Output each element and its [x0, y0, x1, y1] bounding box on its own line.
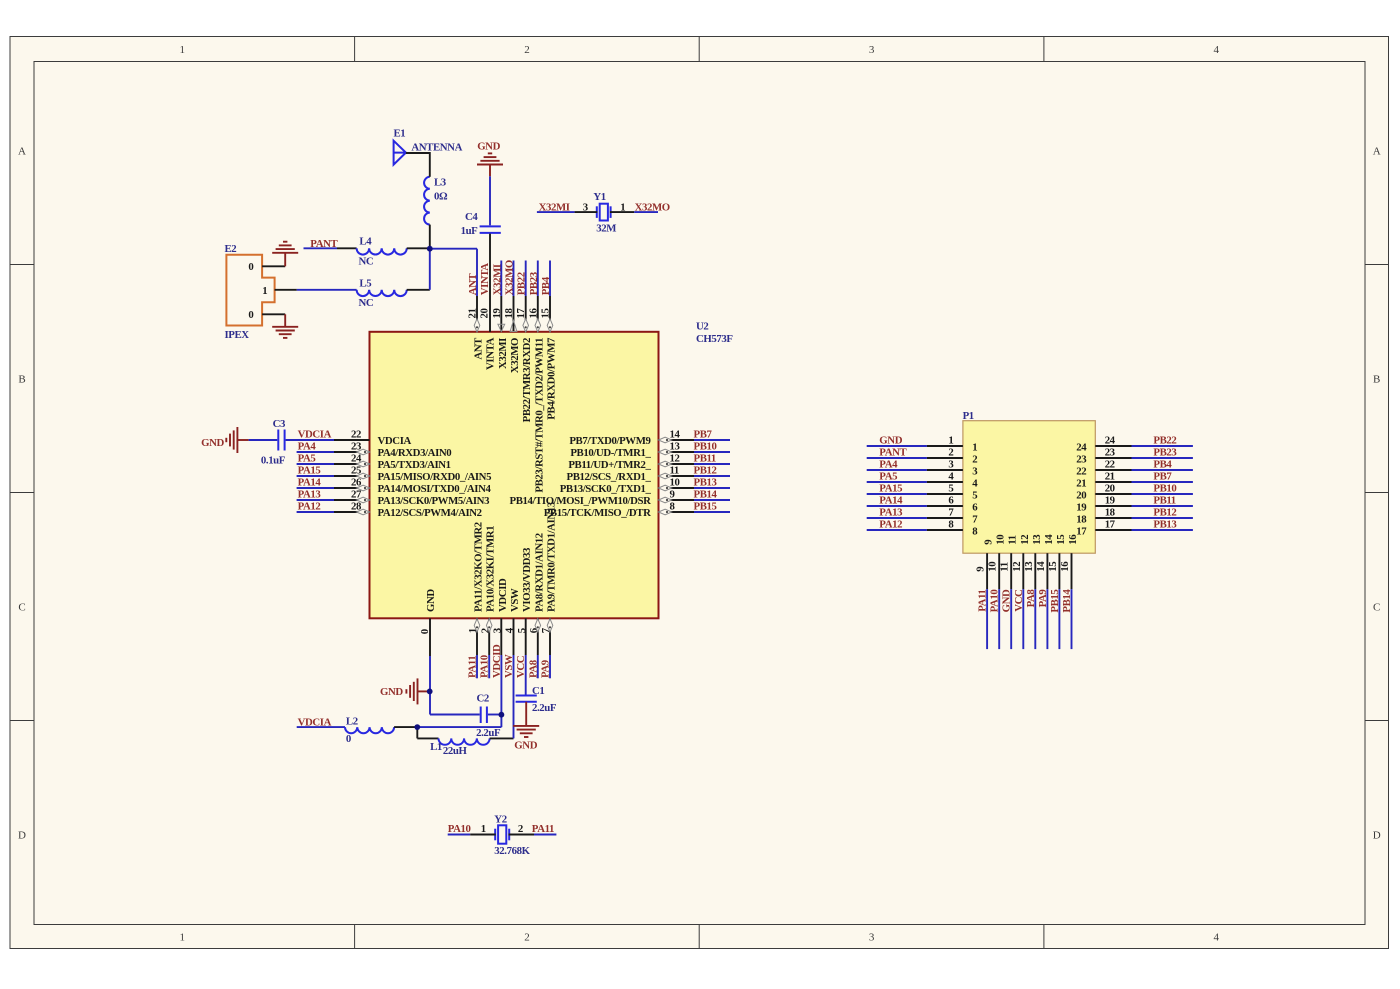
svg-text:C: C	[18, 601, 25, 613]
svg-text:2.2uF: 2.2uF	[532, 702, 557, 714]
svg-text:X32MI: X32MI	[491, 264, 503, 295]
svg-text:C2: C2	[477, 692, 489, 704]
svg-text:3: 3	[869, 44, 875, 56]
svg-text:ANT: ANT	[473, 337, 485, 360]
svg-text:GND: GND	[201, 437, 224, 449]
svg-text:PA12: PA12	[298, 500, 321, 512]
svg-text:PB10: PB10	[694, 440, 717, 452]
svg-text:5: 5	[972, 490, 977, 502]
svg-text:PB11: PB11	[694, 452, 716, 464]
svg-text:21: 21	[1105, 470, 1115, 482]
svg-text:PA9: PA9	[1037, 589, 1049, 608]
svg-text:X32MO: X32MO	[509, 338, 521, 373]
svg-text:B: B	[18, 373, 25, 385]
svg-text:11: 11	[670, 465, 679, 477]
svg-text:VCC: VCC	[1013, 590, 1025, 612]
svg-text:14: 14	[1043, 534, 1055, 545]
svg-text:PB10: PB10	[1153, 482, 1176, 494]
svg-text:32.768K: 32.768K	[494, 845, 530, 857]
svg-text:18: 18	[1105, 506, 1116, 518]
svg-text:PB14: PB14	[1061, 589, 1073, 613]
svg-text:19: 19	[1105, 494, 1116, 506]
svg-text:16: 16	[527, 308, 539, 319]
svg-text:21: 21	[1076, 478, 1086, 490]
svg-text:17: 17	[1105, 518, 1116, 530]
svg-text:E2: E2	[225, 243, 237, 255]
svg-text:15: 15	[1055, 535, 1067, 545]
svg-text:PB22: PB22	[1153, 434, 1176, 446]
svg-text:ANTENNA: ANTENNA	[411, 141, 462, 153]
svg-text:PA9/TMR0/TXD1/AIN13: PA9/TMR0/TXD1/AIN13	[546, 501, 558, 612]
svg-text:L5: L5	[359, 278, 371, 290]
svg-text:24: 24	[1105, 434, 1116, 446]
svg-text:PB10/UD-/TMR1_: PB10/UD-/TMR1_	[570, 447, 651, 459]
svg-text:PA10: PA10	[448, 823, 471, 835]
svg-text:CH573F: CH573F	[696, 333, 733, 345]
svg-text:PB14/TIO/MOSI_/PWM10/DSR: PB14/TIO/MOSI_/PWM10/DSR	[510, 495, 652, 507]
svg-text:0: 0	[419, 629, 431, 634]
svg-text:PB7: PB7	[694, 428, 713, 440]
svg-text:PB23/RST#/TMR0_/TXD2/PWM11: PB23/RST#/TMR0_/TXD2/PWM11	[533, 338, 545, 493]
svg-text:0: 0	[248, 261, 253, 273]
svg-text:PB13: PB13	[1153, 518, 1177, 530]
svg-text:VIO33/VDD33: VIO33/VDD33	[521, 547, 533, 612]
svg-text:L1: L1	[430, 741, 442, 753]
svg-text:20: 20	[479, 309, 491, 319]
svg-text:VINTA: VINTA	[485, 337, 497, 370]
svg-text:12: 12	[1011, 562, 1023, 572]
svg-text:Y2: Y2	[494, 814, 506, 826]
svg-text:PB7/TXD0/PWM9: PB7/TXD0/PWM9	[569, 435, 651, 447]
svg-text:0: 0	[248, 309, 253, 321]
svg-text:15: 15	[1047, 562, 1059, 572]
svg-text:23: 23	[1076, 454, 1087, 466]
svg-text:22: 22	[1076, 466, 1086, 478]
svg-text:20: 20	[1076, 490, 1086, 502]
svg-text:4: 4	[1213, 44, 1219, 56]
svg-text:D: D	[18, 829, 26, 841]
svg-text:C1: C1	[532, 685, 544, 697]
svg-text:PA15: PA15	[298, 464, 321, 476]
svg-text:PA12/SCS/PWM4/AIN2: PA12/SCS/PWM4/AIN2	[378, 507, 482, 519]
svg-text:19: 19	[1076, 502, 1087, 514]
svg-text:PA4: PA4	[298, 440, 317, 452]
svg-text:PA11: PA11	[977, 590, 989, 612]
svg-text:PB12: PB12	[1153, 506, 1176, 518]
svg-text:PA11: PA11	[532, 823, 554, 835]
svg-text:PA13: PA13	[879, 506, 903, 518]
svg-text:C: C	[1373, 601, 1380, 613]
svg-text:PA5: PA5	[879, 470, 897, 482]
svg-text:C4: C4	[465, 211, 478, 223]
svg-text:GND: GND	[514, 740, 537, 752]
svg-text:22: 22	[351, 429, 361, 441]
svg-text:0.1uF: 0.1uF	[261, 455, 286, 467]
svg-text:1: 1	[481, 823, 486, 835]
svg-text:12: 12	[1019, 535, 1031, 545]
svg-text:PB4: PB4	[1153, 458, 1172, 470]
svg-text:GND: GND	[380, 686, 403, 698]
svg-text:0: 0	[346, 733, 351, 745]
svg-text:25: 25	[351, 465, 361, 477]
svg-text:PB4/RXD0/PWM7: PB4/RXD0/PWM7	[546, 337, 558, 420]
svg-text:1uF: 1uF	[461, 225, 479, 237]
svg-text:10: 10	[995, 535, 1007, 545]
svg-text:B: B	[1373, 373, 1380, 385]
svg-text:PA11/X32KO/TMR2: PA11/X32KO/TMR2	[473, 522, 485, 612]
svg-text:PANT: PANT	[879, 446, 907, 458]
svg-text:GND: GND	[879, 434, 902, 446]
svg-text:11: 11	[999, 562, 1011, 571]
svg-text:PA4: PA4	[879, 458, 898, 470]
svg-text:P1: P1	[963, 410, 974, 422]
svg-text:X32MI: X32MI	[497, 338, 509, 369]
svg-text:0Ω: 0Ω	[434, 190, 448, 202]
svg-text:1: 1	[180, 44, 186, 56]
svg-text:PB14: PB14	[694, 488, 718, 500]
svg-text:5: 5	[948, 482, 953, 494]
svg-text:PB15: PB15	[694, 500, 717, 512]
svg-text:23: 23	[351, 441, 362, 453]
svg-text:PA12: PA12	[879, 518, 902, 530]
svg-text:PB22/TMR3/RXD2: PB22/TMR3/RXD2	[521, 338, 533, 422]
svg-text:VINTA: VINTA	[479, 263, 491, 296]
svg-text:24: 24	[1076, 442, 1087, 454]
svg-text:18: 18	[503, 308, 515, 319]
svg-text:4: 4	[1213, 931, 1219, 943]
svg-text:20: 20	[1105, 482, 1115, 494]
svg-text:14: 14	[1035, 561, 1047, 572]
svg-text:18: 18	[1076, 514, 1087, 526]
svg-text:10: 10	[670, 477, 680, 489]
svg-text:C3: C3	[273, 418, 286, 430]
svg-text:21: 21	[467, 309, 479, 319]
svg-text:PB11: PB11	[1153, 494, 1175, 506]
svg-text:26: 26	[351, 477, 362, 489]
svg-text:16: 16	[1067, 534, 1079, 545]
svg-text:PB4: PB4	[540, 276, 552, 295]
svg-text:PA14: PA14	[298, 476, 322, 488]
svg-text:L2: L2	[346, 716, 358, 728]
svg-text:1: 1	[972, 442, 977, 454]
svg-text:1: 1	[948, 434, 953, 446]
svg-text:PA15/MISO/RXD0_/AIN5: PA15/MISO/RXD0_/AIN5	[378, 471, 492, 483]
svg-text:NC: NC	[359, 297, 374, 309]
svg-text:PB11/UD+/TMR2_: PB11/UD+/TMR2_	[568, 459, 651, 471]
svg-text:1: 1	[262, 285, 267, 297]
svg-text:PA10: PA10	[989, 590, 1001, 613]
svg-text:17: 17	[515, 308, 527, 319]
svg-text:PA5/TXD3/AIN1: PA5/TXD3/AIN1	[378, 459, 451, 471]
svg-text:2: 2	[524, 44, 530, 56]
svg-text:12: 12	[670, 453, 680, 465]
svg-text:24: 24	[351, 453, 362, 465]
svg-text:28: 28	[351, 501, 362, 513]
svg-text:PA4/RXD3/AIN0: PA4/RXD3/AIN0	[378, 447, 452, 459]
svg-text:PA13/SCK0/PWM5/AIN3: PA13/SCK0/PWM5/AIN3	[378, 495, 491, 507]
svg-text:PB13: PB13	[694, 476, 718, 488]
svg-text:13: 13	[1023, 561, 1035, 572]
svg-text:2.2uF: 2.2uF	[476, 727, 501, 739]
svg-text:L4: L4	[359, 235, 372, 247]
svg-text:PB12: PB12	[694, 464, 717, 476]
svg-text:PB13/SCK0_/TXD1_: PB13/SCK0_/TXD1_	[560, 483, 652, 495]
svg-text:GND: GND	[477, 141, 500, 153]
svg-text:10: 10	[987, 562, 999, 572]
svg-text:3: 3	[869, 931, 875, 943]
svg-text:D: D	[1373, 829, 1381, 841]
svg-text:PB22: PB22	[516, 272, 528, 295]
svg-text:A: A	[1373, 145, 1381, 157]
svg-text:PB23: PB23	[1153, 446, 1177, 458]
svg-text:22uH: 22uH	[443, 745, 468, 757]
svg-text:2: 2	[524, 931, 530, 943]
svg-text:PA8: PA8	[1025, 589, 1037, 608]
svg-text:PA13: PA13	[298, 488, 322, 500]
svg-text:X32MO: X32MO	[504, 260, 516, 295]
svg-text:A: A	[18, 145, 26, 157]
svg-text:Y1: Y1	[593, 191, 605, 203]
svg-text:VDCID: VDCID	[497, 578, 509, 612]
svg-text:VSW: VSW	[509, 588, 521, 612]
svg-text:PB15/TCK/MISO_/DTR: PB15/TCK/MISO_/DTR	[544, 507, 651, 519]
svg-text:15: 15	[540, 309, 552, 319]
svg-text:L3: L3	[434, 177, 447, 189]
svg-text:GND: GND	[1001, 589, 1013, 612]
svg-text:2: 2	[972, 454, 977, 466]
svg-text:14: 14	[670, 429, 681, 441]
svg-text:2: 2	[948, 446, 953, 458]
svg-text:PA10/X32KI/TMR1: PA10/X32KI/TMR1	[485, 526, 497, 612]
svg-text:32M: 32M	[596, 223, 616, 235]
svg-text:11: 11	[1007, 535, 1019, 544]
svg-text:GND: GND	[425, 589, 437, 612]
svg-text:E1: E1	[394, 128, 406, 140]
svg-text:1: 1	[180, 931, 186, 943]
svg-text:13: 13	[670, 441, 681, 453]
svg-text:VDCIA: VDCIA	[378, 435, 412, 447]
svg-text:13: 13	[1031, 534, 1043, 545]
svg-text:PB7: PB7	[1153, 470, 1172, 482]
svg-text:NC: NC	[359, 256, 374, 268]
svg-text:PB15: PB15	[1049, 590, 1061, 613]
svg-text:2: 2	[518, 823, 523, 835]
svg-text:PB23: PB23	[528, 271, 540, 295]
svg-text:23: 23	[1105, 446, 1116, 458]
svg-text:VDCIA: VDCIA	[298, 428, 332, 440]
svg-text:PA14/MOSI/TXD0_/AIN4: PA14/MOSI/TXD0_/AIN4	[378, 483, 492, 495]
svg-text:PA14: PA14	[879, 494, 903, 506]
svg-text:16: 16	[1059, 561, 1071, 572]
svg-text:ANT: ANT	[467, 273, 479, 296]
svg-text:PA8/RXD1/AIN12: PA8/RXD1/AIN12	[533, 533, 545, 612]
svg-text:PA15: PA15	[879, 482, 902, 494]
svg-text:5: 5	[516, 628, 528, 633]
svg-text:U2: U2	[696, 321, 708, 333]
svg-text:PA5: PA5	[298, 452, 316, 464]
svg-text:PB12/SCS_/RXD1_: PB12/SCS_/RXD1_	[567, 471, 652, 483]
svg-text:22: 22	[1105, 458, 1115, 470]
svg-text:IPEX: IPEX	[225, 329, 250, 341]
svg-text:19: 19	[491, 308, 503, 319]
svg-text:27: 27	[351, 489, 362, 501]
